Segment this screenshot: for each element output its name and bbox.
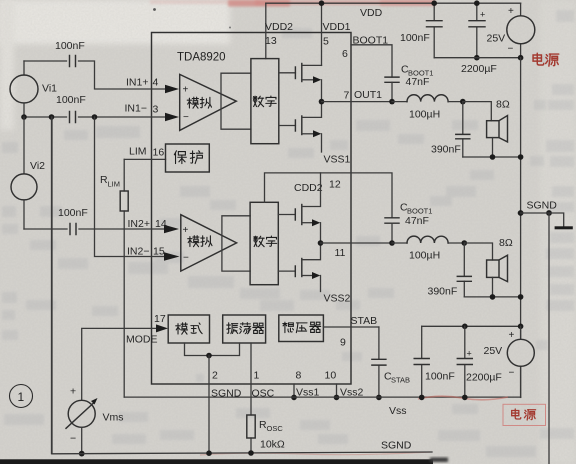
block protection 保护 <box>166 144 210 172</box>
source Vi1 <box>10 61 57 117</box>
svg-text:9: 9 <box>340 337 346 349</box>
svg-text:10: 10 <box>325 370 337 382</box>
svg-text:−: − <box>183 253 189 264</box>
svg-text:VDD: VDD <box>360 7 383 19</box>
IC TDA8920 outline <box>152 33 352 385</box>
svg-text:STAB: STAB <box>351 315 378 327</box>
wire IN2+ row <box>24 228 167 230</box>
svg-text:+: + <box>467 349 472 359</box>
svg-text:8: 8 <box>296 370 302 382</box>
capacitor 100nF bottom supply <box>414 326 455 400</box>
svg-text:100nF: 100nF <box>55 40 85 52</box>
Vss rail <box>124 396 520 398</box>
resistor ROSC <box>247 415 285 451</box>
svg-text:8Ω: 8Ω <box>499 237 513 249</box>
capacitor 100nF top supply <box>400 0 442 57</box>
pin10 Vss2 stub <box>336 384 338 397</box>
connector analog->digital ch2 <box>222 216 250 271</box>
meter Vms <box>66 386 124 457</box>
svg-text:Vms: Vms <box>103 412 124 424</box>
svg-text:47nF: 47nF <box>406 76 430 88</box>
capacitor 100nF input1+ <box>70 56 76 67</box>
wire signal ground vertical <box>51 117 53 454</box>
node SGND right <box>518 200 573 464</box>
svg-text:+: + <box>480 10 485 20</box>
svg-text:SGND: SGND <box>527 200 558 212</box>
svg-text:100nF: 100nF <box>400 32 430 44</box>
svg-text:OUT1: OUT1 <box>354 89 382 101</box>
wire positive bottom cluster <box>422 325 521 327</box>
svg-text:4: 4 <box>153 77 159 89</box>
svg-text:Vss: Vss <box>389 405 407 417</box>
svg-text:OSC: OSC <box>267 424 284 433</box>
capacitor CBOOT2 ch2 <box>385 202 432 246</box>
bottom black scan bar <box>0 459 433 464</box>
svg-text:+: + <box>70 386 76 398</box>
ink speck <box>153 8 156 11</box>
svg-text:SGND: SGND <box>381 440 412 452</box>
svg-text:LIM: LIM <box>129 146 147 158</box>
svg-text:100nF: 100nF <box>425 371 455 383</box>
svg-text:VSS1: VSS1 <box>324 154 351 166</box>
svg-text:100nF: 100nF <box>58 207 88 219</box>
svg-text:−: − <box>183 112 189 123</box>
capacitor CSTAB <box>372 327 410 400</box>
svg-text:25V: 25V <box>484 345 503 357</box>
svg-text:MODE: MODE <box>126 334 158 346</box>
inductor 100uH ch1 <box>392 95 463 121</box>
svg-text:TDA8920: TDA8920 <box>177 52 226 64</box>
arrow IN2- <box>164 252 180 260</box>
mosfet upper ch2 <box>278 173 320 243</box>
svg-text:47nF: 47nF <box>405 215 429 227</box>
resistor RLIM <box>100 159 128 397</box>
svg-text:16: 16 <box>153 147 165 159</box>
wire BOOT1 pin6 <box>351 45 392 77</box>
svg-text:17: 17 <box>154 313 166 325</box>
svg-text:CDD2: CDD2 <box>294 182 323 194</box>
capacitor CBOOT1 ch1 <box>385 64 433 105</box>
capacitor 390nF ch2 <box>428 243 472 298</box>
wire top cap row <box>24 61 166 89</box>
wire OUT1 pin7 <box>322 101 393 103</box>
svg-text:13: 13 <box>265 35 277 47</box>
svg-text:25V: 25V <box>487 33 506 45</box>
block mode 模式 <box>168 315 209 343</box>
svg-text:VDD2: VDD2 <box>265 21 293 33</box>
wire SGND down right edge <box>548 213 550 464</box>
svg-text:−: − <box>70 433 76 445</box>
block digital ch2 <box>250 202 278 284</box>
capacitor 2200uF top supply <box>461 0 497 75</box>
mosfet lower ch1 <box>279 102 351 166</box>
svg-text:Vi2: Vi2 <box>30 160 45 172</box>
svg-text:−: − <box>509 368 515 379</box>
svg-text:3: 3 <box>153 104 159 116</box>
wire IN1- row <box>24 116 166 118</box>
svg-text:390nF: 390nF <box>431 144 461 156</box>
red pen scribble on Vss rail (scan artifact) <box>418 396 508 400</box>
inductor 100uH ch2 <box>392 236 464 261</box>
wire OSC pin1 <box>250 343 252 454</box>
node OUT2 <box>318 240 324 246</box>
svg-text:−: − <box>508 44 514 55</box>
svg-text:6: 6 <box>342 48 348 60</box>
svg-text:14: 14 <box>155 218 167 230</box>
label 电源 top (red) <box>533 53 559 66</box>
wire mode/osc ground connector <box>185 343 240 356</box>
svg-text:VDD1: VDD1 <box>323 21 351 33</box>
label 电源 bottom (red) <box>503 404 546 425</box>
svg-text:2200µF: 2200µF <box>461 63 497 75</box>
svg-text:1: 1 <box>18 390 25 404</box>
wire pin5 VDD1 <box>321 3 323 65</box>
svg-text:10kΩ: 10kΩ <box>260 439 285 451</box>
arrow IN2+ <box>164 225 179 233</box>
arrow IN1- <box>165 113 179 121</box>
mosfet upper ch1 <box>279 64 322 102</box>
svg-text:+: + <box>508 6 514 17</box>
wire LIM pin16 <box>124 158 165 160</box>
wire OUT2 pin11 <box>321 242 393 244</box>
svg-text:7: 7 <box>344 90 350 102</box>
mosfet lower ch2 <box>278 243 350 305</box>
VDD top rail <box>266 2 521 4</box>
svg-text:2: 2 <box>212 370 218 382</box>
node OUT1 <box>319 99 325 105</box>
wire pin13 VDD2 <box>265 3 267 58</box>
speaker 8ohm ch2 <box>464 237 513 297</box>
svg-text:IN1+: IN1+ <box>126 77 148 89</box>
capacitor 100nF input2 <box>70 224 76 235</box>
svg-text:+: + <box>183 225 189 236</box>
wire STAB pin9 <box>323 326 379 328</box>
svg-text:IN2−: IN2− <box>127 246 149 258</box>
svg-text:Vi1: Vi1 <box>42 83 57 95</box>
svg-text:100µH: 100µH <box>409 250 440 262</box>
wire negative top cluster <box>434 57 520 59</box>
source Vi2 <box>11 117 45 229</box>
svg-text:100µH: 100µH <box>409 109 440 121</box>
wire MODE pin17 <box>82 328 156 400</box>
wire IN1-/IN2- tie vertical <box>95 117 168 257</box>
svg-text:8Ω: 8Ω <box>496 99 510 111</box>
connector analog->digital ch1 <box>221 73 251 129</box>
svg-text:BOOT1: BOOT1 <box>353 35 389 47</box>
svg-text:100nF: 100nF <box>56 94 86 106</box>
wire SGND pin2 <box>208 356 210 454</box>
bottom measurement rail <box>52 452 432 454</box>
svg-text:VSS2: VSS2 <box>324 293 351 305</box>
pin8 Vss1 stub <box>293 384 295 397</box>
svg-text:15: 15 <box>153 246 165 258</box>
svg-text:IN2+: IN2+ <box>128 218 150 230</box>
block regulator 稳压器 <box>279 315 324 342</box>
svg-text:1: 1 <box>254 370 260 382</box>
ground symbol <box>555 226 573 229</box>
capacitor 2200uF bottom supply <box>457 326 502 400</box>
wire speaker2 return <box>464 296 520 298</box>
svg-text:11: 11 <box>335 247 346 259</box>
wire speaker1 return <box>463 156 521 158</box>
svg-text:5: 5 <box>323 36 329 48</box>
svg-text:LIM: LIM <box>108 180 121 189</box>
speaker 8ohm ch1 <box>463 99 510 158</box>
figure number circle 1 <box>10 385 33 408</box>
svg-text:390nF: 390nF <box>428 286 458 298</box>
opamp analog ch1 (triangle) <box>180 74 237 130</box>
wire CDD2 pin12 <box>265 173 393 218</box>
capacitor 390nF ch1 <box>431 102 470 157</box>
capacitor 100nF input1- <box>70 112 76 123</box>
svg-text:2200µF: 2200µF <box>466 372 502 384</box>
right main rail <box>520 58 522 340</box>
block digital ch1 <box>251 59 279 144</box>
battery 25V bottom <box>484 326 535 397</box>
battery 25V top (power source circle) <box>487 3 535 58</box>
svg-text:IN1−: IN1− <box>125 103 147 115</box>
svg-text:+: + <box>509 330 515 341</box>
arrow IN1+ <box>165 85 179 93</box>
svg-text:STAB: STAB <box>391 376 410 385</box>
opamp analog ch2 (triangle) <box>181 215 237 271</box>
svg-text:+: + <box>183 85 189 96</box>
block oscillator 振荡器 <box>223 315 266 343</box>
svg-text:12: 12 <box>329 179 341 191</box>
pink highlighter band top <box>150 0 260 4</box>
